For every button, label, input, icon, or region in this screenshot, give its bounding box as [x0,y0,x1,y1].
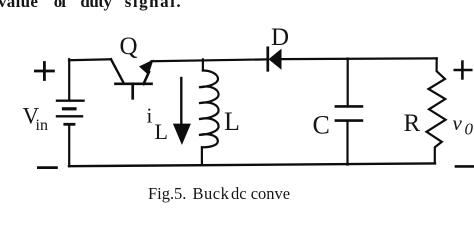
inductor L [199,59,219,165]
top paragraph text (cropped): "value of duty signal." [0,0,38,12]
wire left branch lower (battery to bottom rail) [68,124,70,166]
wire switch node rail (transistor to diode) [152,59,267,61]
label L (inductor) [224,107,240,136]
current arrow iL [173,78,191,145]
wire left branch upper (Vin+ down to battery) [68,59,70,99]
label D [271,24,289,51]
label Vin [23,104,48,134]
label v0 (output voltage) [453,111,474,139]
resistor R (zigzag) [427,58,446,163]
polarity + (output) [455,62,471,79]
polarity - (input) [38,166,56,169]
svg-text:v: v [453,111,463,135]
wire output rail (diode to resistor corner) [282,57,437,60]
polarity + (input) [35,63,53,80]
label R [404,110,421,137]
voltage source Vin (battery) [57,101,84,125]
svg-text:in: in [36,117,48,134]
svg-text:Q: Q [120,33,138,60]
diode D [268,48,282,71]
label C [313,110,330,139]
svg-text:L: L [155,119,168,144]
capacitor C [336,59,362,165]
label Q [120,33,138,60]
svg-text:L: L [224,107,240,136]
svg-text:0: 0 [465,120,474,139]
figure caption (cropped): "Fig. 5. Buck dc-dc converter." [148,184,174,204]
svg-text:D: D [271,24,289,51]
label iL [147,103,168,144]
transistor Q [111,59,154,98]
svg-text:i: i [147,103,153,127]
svg-text:C: C [313,110,330,139]
svg-text:R: R [404,110,421,137]
wire top-left rail (Vin+ to transistor) [69,58,111,61]
wire bottom rail [69,163,435,166]
polarity - (output) [456,165,474,168]
